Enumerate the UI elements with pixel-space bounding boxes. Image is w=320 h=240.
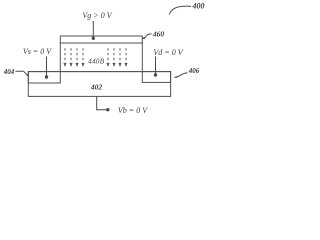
gate electrode 460 box xyxy=(60,36,142,43)
figure number 400 leader xyxy=(169,6,191,14)
Vg leader wire xyxy=(92,21,95,40)
field arrow 2 xyxy=(69,48,72,67)
field arrow 7 xyxy=(118,48,121,67)
source region 404 box xyxy=(28,72,60,83)
svg-text:402: 402 xyxy=(90,82,103,91)
field arrow 3 xyxy=(75,48,78,67)
field arrow 5 xyxy=(106,48,109,67)
gate dielectric region 440B box xyxy=(60,43,142,72)
field arrow 4 xyxy=(81,48,84,67)
svg-text:Vb = 0 V: Vb = 0 V xyxy=(118,106,148,115)
field arrow 8 xyxy=(124,48,127,67)
drain region 406 box xyxy=(142,72,170,83)
svg-text:Vd = 0 V: Vd = 0 V xyxy=(153,48,183,57)
svg-text:404: 404 xyxy=(3,68,15,76)
Vs leader wire xyxy=(45,57,48,79)
svg-text:406: 406 xyxy=(188,67,200,75)
field arrow 6 xyxy=(112,48,115,67)
substrate 402 box xyxy=(28,72,170,97)
404 leader xyxy=(16,71,30,77)
406 leader xyxy=(174,73,188,79)
Vb leader wire xyxy=(97,96,110,111)
svg-text:Vg > 0 V: Vg > 0 V xyxy=(82,11,112,20)
460 leader xyxy=(142,34,152,40)
field arrow 1 xyxy=(63,48,66,67)
svg-text:440B: 440B xyxy=(88,57,104,65)
svg-text:Vs = 0 V: Vs = 0 V xyxy=(23,47,52,56)
svg-text:460: 460 xyxy=(152,29,165,38)
svg-text:400: 400 xyxy=(192,2,205,11)
Vd leader wire xyxy=(154,57,157,77)
